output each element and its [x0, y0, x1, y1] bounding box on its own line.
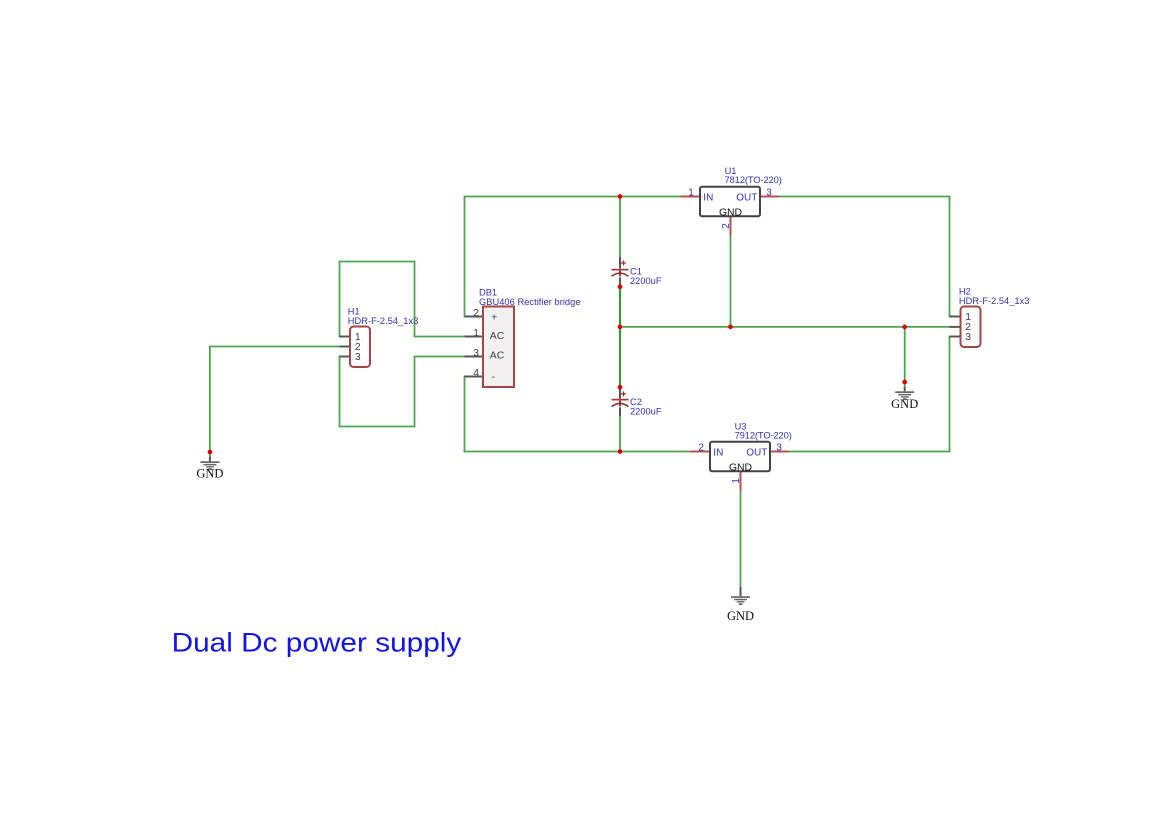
svg-text:7912(TO-220): 7912(TO-220) — [735, 430, 792, 440]
svg-text:GND: GND — [729, 462, 752, 473]
svg-text:1: 1 — [473, 328, 479, 339]
svg-text:GND: GND — [891, 397, 918, 411]
svg-text:2200uF: 2200uF — [630, 406, 662, 416]
svg-text:3: 3 — [473, 348, 479, 359]
svg-text:1: 1 — [731, 478, 742, 484]
svg-text:2: 2 — [721, 223, 732, 229]
svg-text:1: 1 — [688, 188, 694, 199]
svg-text:+: + — [491, 312, 497, 323]
svg-text:GND: GND — [719, 207, 742, 218]
svg-text:AC: AC — [490, 350, 505, 361]
svg-text:4: 4 — [473, 368, 479, 379]
svg-text:OUT: OUT — [736, 192, 757, 203]
svg-text:2: 2 — [473, 308, 479, 319]
svg-text:HDR-F-2.54_1x3: HDR-F-2.54_1x3 — [959, 296, 1030, 306]
svg-text:GND: GND — [727, 609, 754, 623]
svg-text:7812(TO-220): 7812(TO-220) — [725, 175, 782, 185]
svg-text:3: 3 — [776, 443, 782, 454]
svg-text:3: 3 — [766, 188, 772, 199]
svg-text:GBU406 Rectifier bridge: GBU406 Rectifier bridge — [479, 297, 581, 307]
svg-text:2200uF: 2200uF — [630, 276, 662, 286]
svg-text:2: 2 — [698, 443, 704, 454]
svg-text:IN: IN — [703, 192, 713, 203]
svg-text:Dual Dc power supply: Dual Dc power supply — [172, 628, 463, 658]
svg-text:HDR-F-2.54_1x3: HDR-F-2.54_1x3 — [348, 316, 419, 326]
svg-text:AC: AC — [490, 331, 505, 342]
svg-text:IN: IN — [713, 447, 723, 458]
svg-text:-: - — [492, 372, 495, 383]
svg-text:GND: GND — [196, 467, 223, 481]
svg-text:3: 3 — [965, 332, 971, 343]
svg-text:OUT: OUT — [746, 447, 767, 458]
svg-text:3: 3 — [355, 352, 361, 363]
